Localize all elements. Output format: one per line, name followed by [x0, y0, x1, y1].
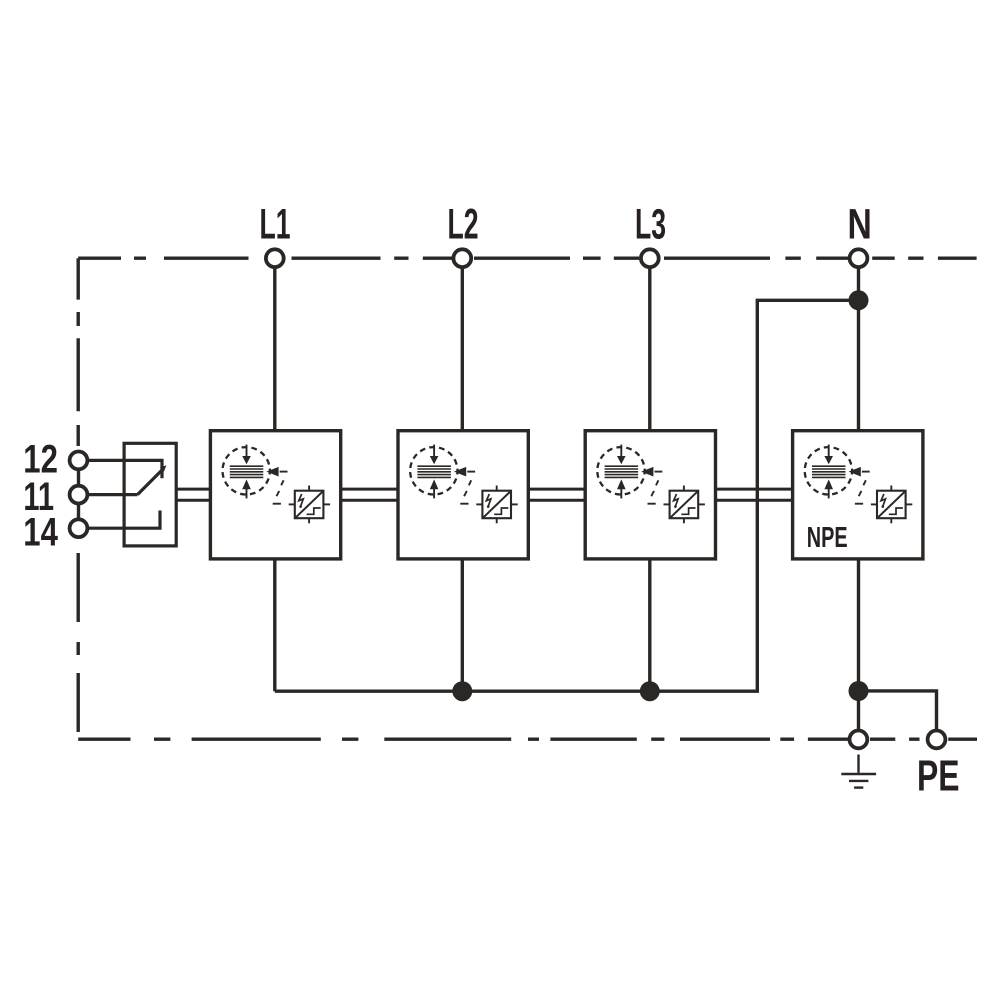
SPD module box (L2)	[398, 431, 528, 559]
varistor step-response glyph (L1)	[307, 508, 321, 514]
frame: left dash-dot boundary line	[76, 258, 79, 732]
frame: bottom dash-dot boundary line	[78, 738, 977, 741]
spark gap side arrow (L1)	[266, 467, 278, 477]
wire module2 bottom drop	[461, 559, 464, 691]
wire module1 bottom drop	[273, 559, 276, 691]
spark gap electrode plates (L1)	[230, 466, 263, 477]
svg-text:NPE: NPE	[807, 522, 848, 554]
changeover switch moving contact with arrow	[138, 470, 163, 495]
svg-text:PE: PE	[917, 751, 960, 800]
spark gap side arrow (L2)	[454, 467, 466, 477]
junction dot bottom bus at L3	[640, 681, 660, 701]
varistor symbol (L2)	[476, 486, 517, 524]
spark gap symbol dashed circle (L2)	[410, 447, 457, 494]
frame: top dash-dot boundary line	[78, 257, 976, 260]
terminal L1 (open circle)	[266, 249, 284, 267]
varistor symbol (L1)	[289, 486, 330, 524]
varistor step-response glyph (N-PE)	[889, 508, 903, 514]
varistor surge-current flash glyph (L3)	[674, 494, 679, 506]
SPD module box (L1)	[210, 431, 340, 559]
spark gap symbol dashed circle (L3)	[597, 447, 644, 494]
spark gap side arrow (N-PE)	[849, 467, 861, 477]
varistor step-response glyph (L3)	[681, 508, 695, 514]
spark gap side arrow (L3)	[641, 467, 653, 477]
terminal earth (open circle)	[850, 731, 868, 749]
dashed link spark gap to varistor (L3)	[648, 472, 663, 504]
spark gap electrode plates (L2)	[417, 466, 451, 477]
svg-text:14: 14	[23, 511, 58, 555]
terminal L3 (open circle)	[641, 249, 659, 267]
contact 12 wire and fixed contact stub	[89, 460, 163, 478]
wire between terminal 11 and 14	[77, 504, 80, 519]
terminal 14 (open circle)	[70, 519, 88, 537]
junction dot on N conductor	[849, 290, 869, 310]
bus double line segment	[176, 488, 210, 491]
contact 14 wire and open contact stub	[89, 511, 161, 529]
SPD module box (L3)	[585, 431, 715, 559]
remote signalling contact box	[124, 443, 176, 546]
spark gap symbol dashed circle (L1)	[223, 447, 270, 494]
terminal 11 (open circle)	[70, 486, 88, 504]
bus double line segment	[716, 488, 793, 491]
terminal 12 (open circle)	[70, 452, 88, 470]
spark gap top arrow (L1)	[246, 445, 248, 457]
varistor surge-current flash glyph (N-PE)	[881, 494, 886, 506]
varistor surge-current flash glyph (L1)	[299, 494, 304, 506]
bus double line segment	[528, 488, 585, 491]
spark gap bottom arrow (N-PE)	[828, 489, 830, 499]
spark gap electrode plates (L3)	[605, 466, 639, 477]
dashed link spark gap to varistor (L1)	[273, 472, 288, 504]
wire common bottom bus L1-L2-L3	[275, 300, 859, 691]
wire module3 bottom drop	[648, 559, 651, 691]
varistor step-response glyph (L2)	[494, 508, 508, 514]
svg-text:N: N	[847, 201, 871, 249]
svg-text:L2: L2	[448, 201, 479, 249]
spark gap bottom arrow (L2)	[433, 489, 435, 499]
svg-text:L1: L1	[260, 201, 291, 249]
SPD module box (N-PE)	[793, 431, 923, 559]
wire PE branch to PE terminal	[859, 691, 937, 731]
varistor symbol (N-PE)	[871, 486, 912, 524]
dashed link spark gap to varistor (N-PE)	[855, 472, 870, 504]
junction dot bottom bus at L2	[452, 681, 472, 701]
terminal N (open circle)	[850, 249, 868, 267]
terminal L2 (open circle)	[453, 249, 471, 267]
ground symbol	[841, 755, 876, 788]
junction dot N/PE at earth drop	[849, 681, 869, 701]
svg-text:L3: L3	[635, 201, 666, 249]
spark gap bottom arrow (L3)	[620, 489, 622, 499]
wire N vertical from terminal to module 4	[857, 268, 860, 431]
bus double line segment	[341, 488, 398, 491]
wire L1 vertical from terminal to module 1	[273, 268, 276, 431]
spark gap top arrow (L3)	[620, 445, 622, 457]
wire L3 vertical from terminal to module 3	[648, 268, 651, 431]
spark gap top arrow (L2)	[433, 445, 435, 457]
wire between terminal 12 and 11	[77, 470, 80, 486]
varistor surge-current flash glyph (L2)	[486, 494, 491, 506]
dashed link spark gap to varistor (L2)	[460, 472, 475, 504]
spark gap electrode plates (N-PE)	[812, 466, 846, 477]
spark gap top arrow (N-PE)	[828, 445, 830, 457]
spark gap bottom arrow (L1)	[246, 489, 248, 499]
contact 11 common wire	[89, 493, 138, 496]
wire L2 vertical from terminal to module 2	[461, 268, 464, 431]
spark gap symbol dashed circle (N-PE)	[805, 447, 852, 494]
wire module4 bottom drop to earth terminal	[857, 559, 860, 730]
terminal PE (open circle)	[928, 731, 946, 749]
varistor symbol (L3)	[664, 486, 705, 524]
